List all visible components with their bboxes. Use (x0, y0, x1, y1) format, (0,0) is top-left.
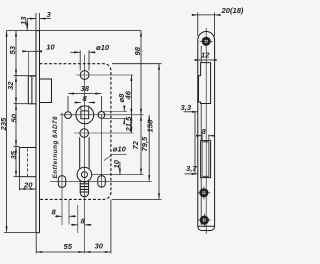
dim 8 bottom-left (55, 215, 62, 217)
lower screw hole 2 (198, 214, 211, 227)
latch bolt tail in case (40, 79, 52, 103)
slot centerline (50, 180, 152, 182)
dim 72 (140, 115, 142, 175)
svg-text:10: 10 (112, 159, 121, 168)
latch bolt head (28, 76, 36, 104)
dim 46 (130, 75, 132, 115)
svg-text:8: 8 (83, 94, 88, 103)
extension line deadbolt bottom (14, 176, 20, 178)
dim 21,5 (130, 115, 132, 133)
svg-text:12: 12 (201, 51, 210, 60)
dim 3,7 (185, 173, 198, 175)
extension line latch top (14, 75, 37, 77)
dim 3 line (27, 18, 36, 20)
dim o10 top (80, 50, 89, 70)
deadbolt head (19, 148, 36, 177)
keyhole circle centerline (92, 174, 144, 176)
plate outline (198, 32, 215, 231)
svg-text:72: 72 (131, 140, 140, 149)
follower square (81, 111, 89, 119)
svg-text:3,7: 3,7 (186, 164, 197, 173)
dim 235 (6, 31, 8, 233)
svg-text:8: 8 (52, 208, 57, 217)
plate centerline (205, 28, 207, 234)
svg-text:20(18): 20(18) (221, 6, 244, 15)
svg-text:ø10: ø10 (113, 145, 127, 154)
dim 8 plate ext (202, 135, 209, 141)
dim o8 tangent ext lines (103, 112, 127, 119)
svg-text:10: 10 (46, 43, 55, 52)
small circle below follower (80, 129, 89, 138)
bottom dim ext lines (36, 199, 111, 253)
deadbolt dashed centerline (27, 149, 29, 177)
faceplate edge view (double vertical lines) (36, 31, 40, 233)
lower screw hole 1 (197, 186, 210, 199)
dim 8 follower square (81, 106, 89, 111)
key bit ridges (80, 184, 88, 192)
dim 35 (15, 147, 17, 177)
dim 32 (15, 76, 17, 104)
right slot vertical centerline (101, 115, 103, 188)
svg-text:50: 50 (10, 113, 19, 122)
svg-text:98: 98 (133, 46, 142, 55)
extension line latch bottom (14, 103, 29, 105)
svg-text:235: 235 (0, 117, 8, 131)
svg-text:32: 32 (6, 81, 15, 90)
top hole circle (80, 71, 89, 80)
dim 10 latch protrusion ext (27, 52, 29, 76)
dim 8 bottom-right ext (77, 205, 79, 233)
dim 53 (15, 31, 17, 76)
right slot (98, 176, 106, 187)
dim 10 keyhole (119, 162, 121, 175)
svg-text:8: 8 (202, 127, 207, 136)
latch cutout with notch (199, 63, 211, 104)
dim 20 deadbolt ext (19, 178, 36, 191)
deadbolt cutout inner (202, 142, 209, 176)
svg-text:3: 3 (47, 10, 52, 19)
svg-text:13: 13 (19, 16, 28, 25)
dim 10 latch protrusion (22, 50, 28, 52)
dim 12 (196, 59, 201, 61)
o10 leader shelf (113, 153, 127, 155)
dim 158 (158, 64, 160, 200)
dim 20 deadbolt (19, 188, 36, 190)
deadbolt cutout outer (201, 141, 211, 178)
lock case dashed outline (40, 64, 111, 200)
vertical centerline of lock (84, 55, 86, 254)
svg-text:20: 20 (23, 181, 33, 190)
dim o8 arrows (123, 106, 125, 112)
svg-text:53: 53 (8, 45, 17, 54)
dim 55 (36, 251, 84, 253)
dim 20(18) (193, 14, 198, 16)
extension line top of faceplate (7, 30, 141, 32)
svg-text:21,5: 21,5 (124, 116, 133, 133)
plate inner lip line (200, 46, 202, 225)
keyhole stem sides (80, 137, 89, 168)
right screw circle (98, 112, 105, 119)
faceplate extension lines above for thickness dim (36, 13, 40, 31)
top screw hole (200, 35, 213, 48)
latch bevel line (31, 76, 33, 104)
left screw circle (65, 112, 72, 119)
dim 13 (26, 19, 28, 31)
key bit below (80, 181, 88, 197)
top hole centerline (76, 74, 134, 76)
svg-text:35: 35 (9, 150, 18, 159)
left slot (58, 176, 65, 188)
extension line bottom of faceplate (4, 231, 36, 233)
dim 3,3 (184, 111, 198, 113)
dim 50 (15, 104, 17, 147)
dim 8 bottom-left ext (68, 200, 70, 225)
svg-text:38: 38 (81, 84, 90, 93)
horizontal centerline through follower (60, 114, 144, 116)
extension line deadbolt top (14, 146, 20, 148)
follower circle (76, 106, 94, 124)
keyhole circle (77, 167, 92, 182)
line for 3,3 / 3,7 reference (194, 112, 196, 174)
dim 158 ext lines (112, 64, 162, 200)
svg-text:30: 30 (95, 242, 104, 251)
o10 leader (104, 154, 113, 160)
dim 8 bottom-right (71, 224, 78, 226)
dim 98 (140, 31, 142, 115)
svg-text:79,5: 79,5 (140, 136, 149, 152)
keyhole inner circle (81, 172, 87, 178)
dim 79,5 (148, 115, 150, 182)
svg-text:ø10: ø10 (96, 43, 110, 52)
svg-text:3,3: 3,3 (181, 103, 192, 112)
small circle centerline (74, 132, 134, 134)
plate bottom chord line (198, 225, 215, 227)
dim 30 (85, 251, 111, 253)
svg-text:55: 55 (64, 242, 73, 251)
dim 20(18) ext (198, 13, 215, 37)
svg-text:46: 46 (124, 90, 133, 100)
dim 8 plate (197, 135, 203, 137)
svg-text:158: 158 (146, 119, 155, 132)
left slot vertical centerline (61, 113, 63, 225)
svg-text:Entfernung 8AD78: Entfernung 8AD78 (52, 116, 59, 178)
dim 38 (68, 96, 101, 111)
